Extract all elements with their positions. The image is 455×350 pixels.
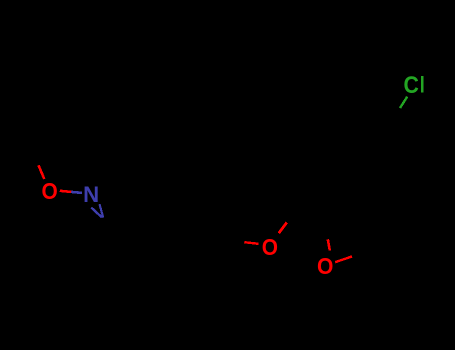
svg-text:C: C <box>404 72 419 98</box>
wire : C=N double bond, inner line (blue half near N) <box>91 208 102 218</box>
wire : O1-N bond blue half <box>71 192 82 193</box>
svg-text:O: O <box>262 234 278 260</box>
wire : ether O to CH2 bond going up-right (red half near O) <box>279 223 287 234</box>
wire : methyl-to-oxime-O bond (red half near O) <box>39 165 45 179</box>
wire : chain-CH2 to ether O bond (red half near O) <box>244 242 258 244</box>
wire : epoxide O to quaternary C bond (red half near O) <box>328 239 330 250</box>
svg-text:N: N <box>83 182 99 207</box>
wire : epoxide O to CH2 bond (red half near O) <box>335 256 352 262</box>
svg-text:O: O <box>317 253 333 279</box>
wire : C=N double bond, steep line (blue half near N) <box>100 204 104 217</box>
wire : Cl to ring-carbon bond (green half near Cl) <box>400 97 407 108</box>
wire : O1-N bond red half <box>60 191 71 192</box>
svg-text:O: O <box>41 178 57 204</box>
